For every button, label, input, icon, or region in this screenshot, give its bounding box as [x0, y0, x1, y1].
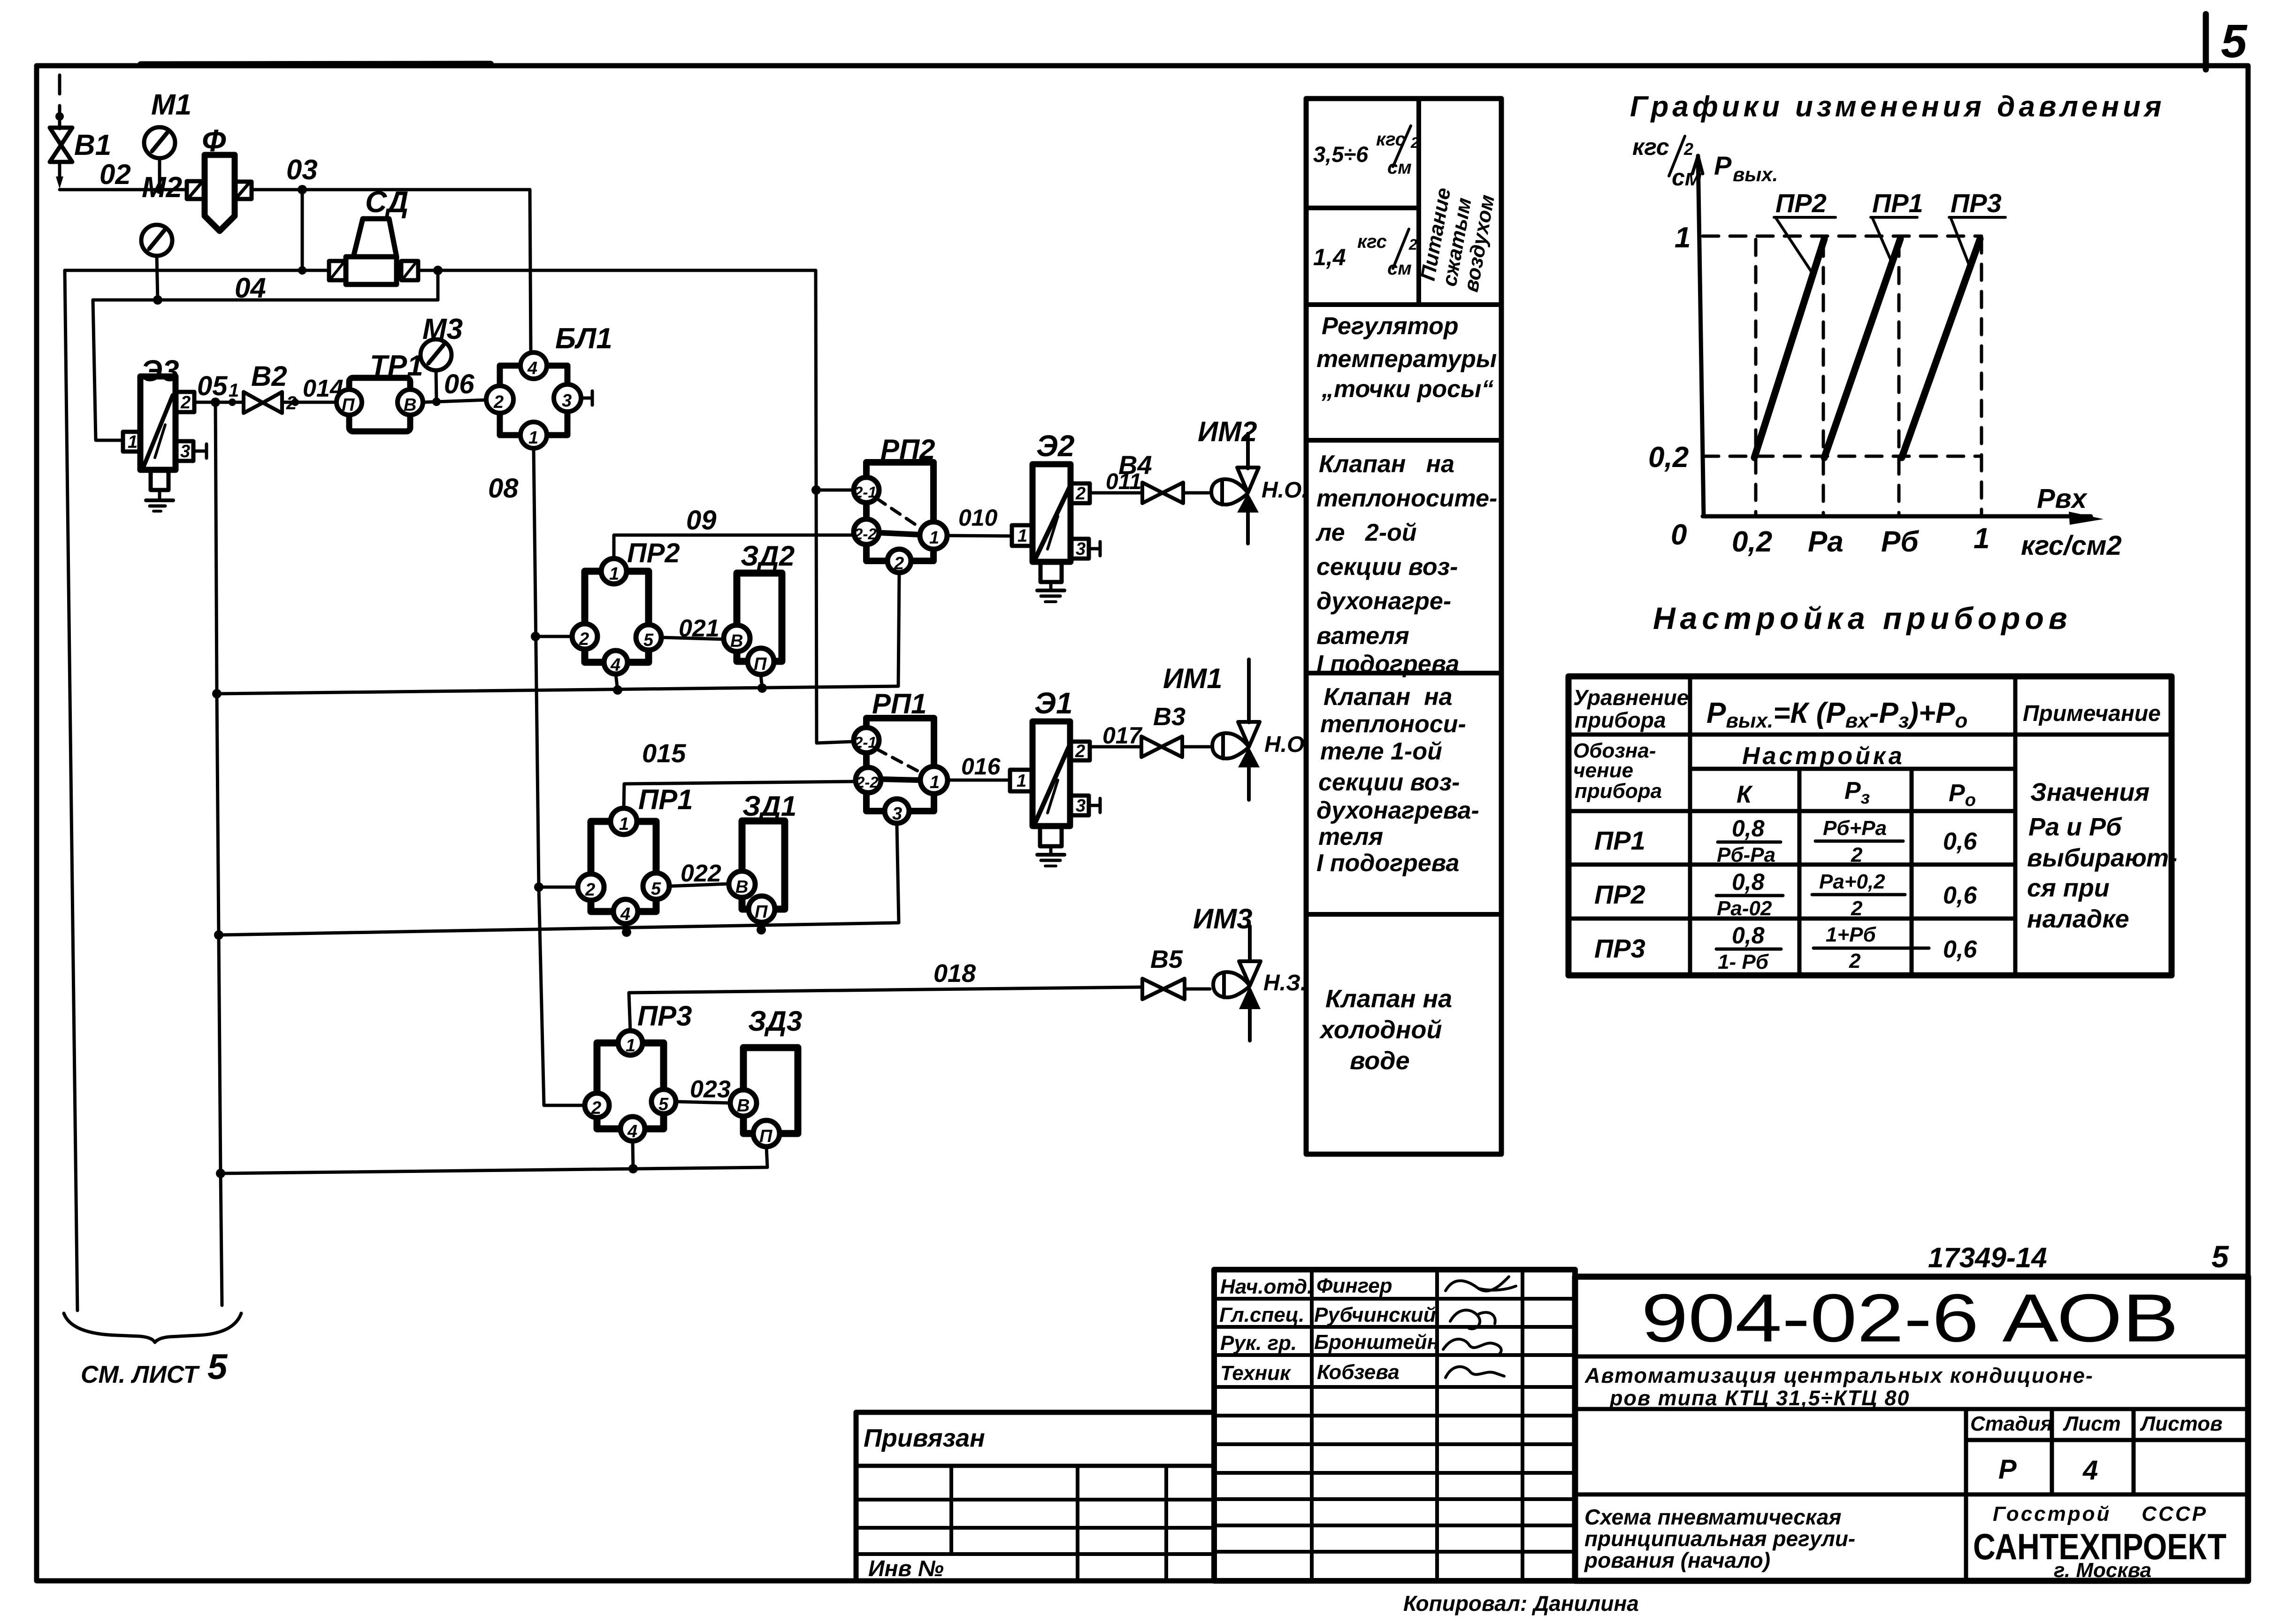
brace see sheet 5 — [64, 1313, 241, 1342]
svg-text:Э1: Э1 — [1034, 686, 1073, 720]
svg-text:СД: СД — [365, 185, 408, 219]
svg-text:0,8: 0,8 — [1732, 922, 1765, 949]
E2 exhaust stem and ground — [1040, 562, 1062, 582]
wire: dashed stub to sheet 5 (top of B1) — [58, 75, 61, 94]
svg-text:1- Рб: 1- Рб — [1718, 950, 1769, 973]
wire 023 — [676, 1102, 730, 1103]
svg-text:Ра: Ра — [1808, 526, 1844, 558]
svg-text:Н.З.: Н.З. — [1263, 971, 1307, 996]
svg-text:3,5÷6: 3,5÷6 — [1313, 142, 1369, 167]
legend valve heater 1st section — [1316, 683, 1479, 877]
svg-text:08: 08 — [488, 473, 519, 504]
wire 08 branch to PR2 port2 — [535, 635, 572, 638]
svg-text:1: 1 — [1017, 771, 1026, 791]
wire 011 — [1090, 491, 1142, 495]
title block main — [1575, 1277, 2248, 1581]
signatures — [1446, 1277, 1516, 1291]
svg-text:0,8: 0,8 — [1732, 869, 1765, 895]
fraction bars — [1718, 841, 1781, 844]
svg-text:ЗД3: ЗД3 — [748, 1005, 802, 1037]
svg-text:Регулятор: Регулятор — [1322, 313, 1459, 340]
svg-text:Госстрой СССР: Госстрой СССР — [1993, 1502, 2208, 1525]
svg-text:I подогрева: I подогрева — [1316, 651, 1459, 678]
svg-text:М2: М2 — [142, 171, 182, 204]
svg-text:Рб-Ра: Рб-Ра — [1717, 843, 1775, 866]
svg-text:теле 1-ой: теле 1-ой — [1320, 738, 1442, 765]
svg-text:1: 1 — [128, 432, 138, 452]
svg-text:Гл.спец.: Гл.спец. — [1219, 1303, 1304, 1326]
svg-text:Настройка: Настройка — [1742, 743, 1905, 770]
svg-text:В: В — [737, 1096, 750, 1116]
svg-text:см: см — [1387, 157, 1412, 178]
svg-text:4: 4 — [620, 904, 630, 924]
svg-text:1: 1 — [929, 528, 939, 548]
wire ZD2 P stem — [761, 674, 762, 689]
gauge M1 — [144, 127, 175, 158]
svg-text:Техник: Техник — [1220, 1362, 1292, 1385]
legend pressure 1,4 — [1313, 229, 1417, 279]
wire bus to RP2 port2 — [217, 574, 899, 694]
svg-text:теплоноси-: теплоноси- — [1320, 711, 1466, 738]
legend pressure 3,5-6 — [1313, 126, 1419, 178]
wire SD inlet — [65, 269, 329, 272]
svg-text:вых.: вых. — [1733, 163, 1778, 185]
wire bus to RP1 port3 — [219, 825, 899, 935]
wire 06 line — [423, 400, 487, 402]
svg-text:2-1: 2-1 — [854, 734, 877, 751]
svg-text:В: В — [404, 395, 416, 415]
svg-text:В3: В3 — [1153, 703, 1186, 731]
svg-text:П: П — [755, 902, 768, 922]
svg-text:Листов: Листов — [2140, 1412, 2223, 1435]
svg-text:ПР3: ПР3 — [1594, 934, 1645, 963]
svg-text:5: 5 — [207, 1347, 228, 1387]
legend column frame — [1306, 99, 1501, 1154]
svg-text:СМ. ЛИСТ: СМ. ЛИСТ — [81, 1361, 200, 1388]
sheet number tick top right — [2203, 14, 2209, 69]
graph ramp PR2 — [1754, 239, 1824, 458]
wire 010 — [948, 536, 1012, 536]
svg-text:секции воз-: секции воз- — [1316, 553, 1458, 581]
svg-text:теля: теля — [1318, 823, 1383, 850]
svg-text:ПР2: ПР2 — [1775, 188, 1827, 218]
svg-text:5: 5 — [2211, 1239, 2229, 1274]
svg-text:2: 2 — [585, 880, 595, 900]
svg-text:2: 2 — [894, 554, 904, 574]
svg-text:04: 04 — [235, 272, 266, 304]
wire 016 — [948, 779, 1010, 782]
svg-text:см: см — [1387, 258, 1412, 279]
svg-text:П: П — [342, 395, 355, 415]
graph ramp PR1 — [1824, 239, 1900, 458]
svg-text:Стадия: Стадия — [1970, 1412, 2052, 1435]
svg-text:3: 3 — [562, 391, 572, 411]
svg-text:2: 2 — [1075, 484, 1086, 504]
svg-text:2: 2 — [493, 392, 504, 412]
wire riser to sheet 5 (left B) — [215, 402, 222, 1305]
wire PR3 port4 stem — [633, 1141, 633, 1169]
svg-text:1+Рб: 1+Рб — [1826, 923, 1877, 946]
svg-text:воде: воде — [1350, 1047, 1410, 1075]
svg-text:рования (начало): рования (начало) — [1584, 1548, 1770, 1572]
svg-text:К: К — [1737, 781, 1753, 808]
graph axis labels — [1632, 134, 2122, 561]
svg-text:2: 2 — [1849, 950, 1861, 973]
svg-text:Уравнение: Уравнение — [1573, 685, 1689, 710]
wire ZD3 P stem to bus — [221, 1147, 767, 1173]
gauge M3 — [421, 339, 451, 370]
svg-text:5: 5 — [651, 879, 661, 899]
svg-text:1: 1 — [229, 380, 239, 401]
svg-text:секции воз-: секции воз- — [1318, 769, 1460, 796]
svg-text:Клапан на: Клапан на — [1319, 451, 1454, 478]
svg-text:021: 021 — [679, 615, 719, 642]
svg-text:ПР1: ПР1 — [1872, 188, 1923, 218]
svg-text:Фингер: Фингер — [1316, 1274, 1392, 1297]
svg-text:ЗД2: ЗД2 — [741, 540, 795, 572]
svg-text:17349-14: 17349-14 — [1928, 1242, 2047, 1273]
svg-text:2: 2 — [591, 1098, 601, 1118]
svg-text:ПР3: ПР3 — [637, 1000, 692, 1032]
wire PR1 port4 stem — [626, 924, 627, 933]
svg-text:2: 2 — [1851, 843, 1863, 866]
legend air supply rotated text — [1416, 186, 1499, 294]
E3 exhaust stem and ground — [151, 470, 168, 490]
svg-text:Инв №: Инв № — [868, 1556, 944, 1581]
svg-text:015: 015 — [642, 738, 686, 768]
svg-text:2: 2 — [1408, 236, 1417, 253]
svg-text:2: 2 — [1410, 134, 1419, 151]
svg-text:выбирают-: выбирают- — [2027, 844, 2177, 872]
svg-text:Схема пневматическая: Схема пневматическая — [1584, 1505, 1841, 1529]
valve B1 — [50, 128, 72, 145]
svg-text:принципиальная регули-: принципиальная регули- — [1584, 1526, 1855, 1551]
svg-text:П: П — [754, 654, 767, 674]
svg-text:Рб+Ра: Рб+Ра — [1823, 817, 1887, 840]
svg-text:1,4: 1,4 — [1313, 244, 1346, 270]
svg-text:В: В — [730, 631, 743, 651]
svg-text:Клапан на: Клапан на — [1323, 683, 1453, 711]
legend cold water valve — [1319, 985, 1452, 1075]
wire ZD1 P stem — [761, 922, 762, 929]
svg-text:0,6: 0,6 — [1943, 882, 1977, 909]
document binding table — [856, 1412, 1214, 1581]
svg-text:температуры: температуры — [1316, 345, 1497, 373]
svg-text:Графики изменения давления: Графики изменения давления — [1630, 91, 2165, 123]
svg-text:2: 2 — [180, 393, 191, 413]
svg-text:Ра и Рб: Ра и Рб — [2028, 813, 2122, 841]
svg-text:наладке: наладке — [2027, 905, 2129, 933]
wire PR2 port4 stem — [616, 674, 618, 691]
graph ramp PR3 — [1902, 239, 1980, 458]
svg-text:Ра+0,2: Ра+0,2 — [1819, 870, 1885, 893]
legend valve heater 2nd section — [1315, 451, 1497, 678]
E1 exhaust stem and ground — [1040, 826, 1062, 846]
svg-text:Кобзева: Кобзева — [1317, 1361, 1400, 1384]
svg-text:022: 022 — [681, 860, 721, 887]
svg-text:кгс: кгс — [1357, 231, 1387, 252]
wire 04 line — [436, 270, 440, 300]
svg-text:010: 010 — [958, 505, 998, 531]
svg-text:1: 1 — [930, 773, 940, 792]
svg-text:2: 2 — [1075, 742, 1085, 761]
svg-text:В2: В2 — [251, 360, 287, 392]
wire 022 — [669, 884, 729, 886]
svg-text:2-2: 2-2 — [856, 774, 879, 791]
svg-text:023: 023 — [690, 1076, 731, 1103]
svg-text:0,2: 0,2 — [1648, 441, 1689, 474]
svg-text:Ра-02: Ра-02 — [1717, 897, 1772, 920]
svg-text:прибора: прибора — [1575, 780, 1662, 803]
svg-text:018: 018 — [933, 959, 976, 988]
wire 017 — [1090, 745, 1141, 749]
svg-text:холодной: холодной — [1319, 1016, 1442, 1044]
svg-text:ЗД1: ЗД1 — [742, 790, 796, 822]
settings table grid — [1568, 676, 2172, 975]
svg-text:0,6: 0,6 — [1943, 828, 1977, 855]
svg-text:1: 1 — [626, 1036, 635, 1056]
svg-text:РП1: РП1 — [872, 688, 927, 720]
svg-text:1: 1 — [1675, 222, 1691, 254]
svg-text:г. Москва: г. Москва — [2054, 1559, 2151, 1582]
svg-text:3: 3 — [180, 442, 190, 461]
svg-text:вателя: вателя — [1316, 622, 1409, 650]
svg-text:Лист: Лист — [2063, 1412, 2121, 1435]
wire BL1 port4 riser to 03 — [530, 190, 531, 352]
svg-text:ПР2: ПР2 — [1594, 880, 1645, 909]
graph X axis — [1703, 514, 2091, 519]
svg-text:Копировал: Данилина: Копировал: Данилина — [1403, 1591, 1639, 1616]
svg-text:2: 2 — [286, 393, 297, 414]
svg-text:3: 3 — [892, 804, 902, 824]
wire 015 line — [624, 781, 854, 809]
svg-text:Нач.отд.: Нач.отд. — [1220, 1275, 1313, 1298]
svg-text:ПР3: ПР3 — [1951, 188, 2002, 218]
svg-text:4: 4 — [610, 655, 620, 675]
svg-text:0: 0 — [1671, 519, 1687, 551]
svg-text:духонагре-: духонагре- — [1316, 588, 1451, 615]
wire 018 line — [629, 987, 1142, 1032]
svg-text:духонагрева-: духонагрева- — [1316, 797, 1479, 824]
svg-text:03: 03 — [286, 154, 318, 185]
svg-text:1: 1 — [1017, 526, 1027, 546]
svg-text:Настройка приборов: Настройка приборов — [1653, 601, 2072, 636]
svg-text:Бронштейн: Бронштейн — [1314, 1331, 1439, 1354]
svg-text:2: 2 — [1851, 897, 1863, 920]
svg-text:ле 2-ой: ле 2-ой — [1315, 519, 1417, 546]
svg-text:2: 2 — [579, 629, 589, 649]
svg-text:Рук. гр.: Рук. гр. — [1220, 1332, 1297, 1355]
svg-text:М1: М1 — [151, 89, 191, 121]
svg-text:904-02-6 АОВ: 904-02-6 АОВ — [1641, 1280, 2179, 1356]
svg-text:кгс/см2: кгс/см2 — [2021, 530, 2122, 561]
svg-text:4: 4 — [2082, 1455, 2098, 1486]
svg-text:1: 1 — [619, 814, 629, 834]
svg-text:ров типа КТЦ 31,5÷КТЦ 80: ров типа КТЦ 31,5÷КТЦ 80 — [1609, 1386, 1910, 1410]
svg-text:2-1: 2-1 — [854, 483, 877, 501]
svg-text:Рвх: Рвх — [2037, 483, 2088, 514]
svg-text:05: 05 — [197, 371, 228, 401]
wire 05 line — [194, 401, 244, 404]
svg-text:чение: чение — [1573, 759, 1633, 782]
svg-text:016: 016 — [961, 753, 1001, 780]
svg-text:Клапан на: Клапан на — [1325, 985, 1452, 1013]
svg-text:ИМ1: ИМ1 — [1163, 663, 1223, 694]
svg-text:ся при: ся при — [2027, 874, 2110, 902]
svg-text:В5: В5 — [1150, 945, 1183, 973]
gauge M2 — [141, 225, 172, 256]
svg-text:02: 02 — [99, 159, 131, 190]
svg-text:0,2: 0,2 — [1732, 526, 1772, 558]
svg-text:Значения: Значения — [2030, 778, 2150, 806]
svg-text:Рубчинский: Рубчинский — [1314, 1303, 1436, 1326]
svg-text:В4: В4 — [1118, 450, 1152, 480]
wire 09 line — [614, 535, 854, 559]
svg-text:Э2: Э2 — [1036, 429, 1075, 463]
svg-text:5: 5 — [643, 630, 654, 650]
svg-text:0,6: 0,6 — [1943, 936, 1977, 963]
svg-text:Автоматизация центральных ко: Автоматизация центральных кондиционе- — [1584, 1364, 2094, 1387]
wire 02 line — [60, 188, 187, 192]
svg-text:В1: В1 — [74, 129, 111, 161]
svg-text:5: 5 — [2221, 15, 2248, 68]
wire 04 drop to E3 port 1 — [93, 300, 123, 440]
signature table — [1214, 1270, 1575, 1581]
svg-text:1: 1 — [609, 564, 619, 584]
svg-text:0,8: 0,8 — [1732, 815, 1765, 842]
wire riser to sheet 5 (left A) — [65, 270, 77, 1310]
svg-text:ПР1: ПР1 — [1594, 826, 1645, 855]
svg-text:1: 1 — [528, 428, 538, 448]
wire 08 branch to PR1 port2 — [539, 886, 578, 889]
wire 03 line — [252, 188, 530, 192]
svg-text:ПР1: ПР1 — [638, 784, 693, 815]
svg-text:П: П — [759, 1126, 773, 1146]
svg-text:2: 2 — [1683, 139, 1693, 159]
svg-text:3: 3 — [1076, 539, 1086, 559]
wire 03 to SD supply — [301, 190, 304, 270]
wire SD branch to RP2 input 2-1 — [816, 270, 853, 743]
svg-text:Н.О.: Н.О. — [1262, 478, 1308, 503]
wire 014 — [282, 401, 337, 404]
svg-text:прибора: прибора — [1575, 708, 1666, 732]
wire 021 — [661, 637, 725, 639]
svg-text:см: см — [1672, 164, 1702, 191]
svg-text:ПР2: ПР2 — [627, 538, 680, 568]
svg-text:4: 4 — [627, 1122, 637, 1141]
legend dew point regulator — [1316, 313, 1497, 403]
svg-text:2-2: 2-2 — [854, 525, 877, 543]
svg-text:Рб: Рб — [1881, 526, 1919, 558]
svg-text:1: 1 — [1974, 522, 1989, 555]
graph dashed grid — [1703, 236, 1981, 516]
node 03 — [298, 185, 307, 194]
svg-text:4: 4 — [527, 359, 537, 378]
svg-text:В: В — [735, 877, 748, 897]
svg-text:09: 09 — [686, 505, 717, 536]
svg-text:„точки росы“: „точки росы“ — [1321, 375, 1493, 403]
settings table text — [1573, 685, 2177, 973]
svg-text:017: 017 — [1102, 722, 1143, 749]
svg-text:ИМ3: ИМ3 — [1193, 903, 1253, 935]
svg-text:5: 5 — [658, 1095, 669, 1114]
svg-text:Привязан: Привязан — [864, 1424, 985, 1452]
wire 08 vertical — [534, 448, 584, 1105]
wire SD outlet to RP risers — [418, 269, 816, 272]
svg-text:М3: М3 — [422, 313, 463, 345]
svg-text:I подогрева: I подогрева — [1316, 850, 1459, 877]
svg-text:3: 3 — [1076, 796, 1086, 816]
svg-text:06: 06 — [444, 369, 474, 399]
graph Y axis — [1698, 156, 1704, 516]
svg-text:теплоносите-: теплоносите- — [1316, 485, 1497, 512]
svg-text:Р: Р — [1998, 1454, 2017, 1485]
svg-text:Р: Р — [1714, 151, 1732, 180]
svg-text:БЛ1: БЛ1 — [555, 322, 612, 355]
svg-text:кгс: кгс — [1632, 134, 1669, 160]
svg-text:Примечание: Примечание — [2023, 701, 2161, 726]
